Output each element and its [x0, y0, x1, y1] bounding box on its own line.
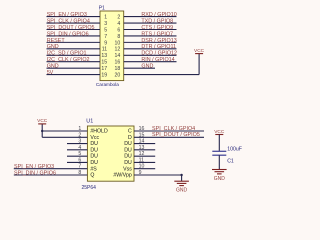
svg-text:DCD / GPIO12: DCD / GPIO12: [141, 51, 177, 57]
svg-text:SPI_DIN / GPIO6: SPI_DIN / GPIO6: [14, 170, 56, 176]
svg-text:I2C_CLK / GPIO2: I2C_CLK / GPIO2: [47, 57, 90, 63]
svg-text:5V: 5V: [47, 70, 54, 76]
svg-text:3: 3: [104, 21, 107, 27]
svg-text:Q: Q: [90, 173, 94, 179]
svg-text:SPI_CLK / GPIO4: SPI_CLK / GPIO4: [152, 126, 195, 132]
svg-text:7: 7: [104, 34, 107, 40]
svg-text:CTS / GPIO9: CTS / GPIO9: [141, 25, 173, 31]
svg-text:16: 16: [115, 60, 121, 66]
svg-text:DU: DU: [124, 154, 132, 160]
svg-text:13: 13: [101, 53, 107, 59]
svg-text:DTR / GPIO11: DTR / GPIO11: [141, 44, 176, 50]
svg-text:SPI_DOUT / GPIO5: SPI_DOUT / GPIO5: [152, 132, 200, 138]
svg-text:GND: GND: [47, 64, 59, 70]
svg-text:19: 19: [101, 72, 107, 78]
svg-text:DU: DU: [124, 147, 132, 153]
svg-text:VCC: VCC: [214, 129, 225, 135]
svg-text:U1: U1: [86, 119, 93, 125]
svg-text:SPI_CLK / GPIO4: SPI_CLK / GPIO4: [47, 18, 90, 24]
svg-text:#HOLD: #HOLD: [90, 129, 108, 135]
svg-text:SPI_EN / GPIO3: SPI_EN / GPIO3: [14, 164, 54, 170]
svg-text:10: 10: [115, 40, 121, 46]
svg-text:20: 20: [115, 72, 121, 78]
svg-text:C: C: [128, 129, 132, 135]
svg-text:RXD / GPIO10: RXD / GPIO10: [141, 12, 176, 18]
svg-text:9: 9: [104, 40, 107, 46]
svg-text:100uF: 100uF: [227, 147, 242, 153]
svg-text:25P64: 25P64: [82, 185, 97, 191]
svg-text:Carambola: Carambola: [96, 82, 119, 87]
svg-text:DU: DU: [90, 147, 98, 153]
svg-text:RTS / GPIO7: RTS / GPIO7: [141, 31, 173, 37]
svg-text:DU: DU: [90, 141, 98, 147]
svg-text:VCC: VCC: [194, 48, 205, 54]
svg-text:4: 4: [117, 21, 120, 27]
svg-text:GND: GND: [141, 64, 153, 70]
svg-text:8: 8: [117, 34, 120, 40]
svg-text:C1: C1: [227, 158, 234, 164]
svg-text:DU: DU: [90, 154, 98, 160]
svg-text:DU: DU: [124, 160, 132, 166]
svg-text:RESET: RESET: [47, 38, 66, 44]
svg-text:11: 11: [102, 47, 107, 53]
svg-text:GND: GND: [47, 44, 59, 50]
svg-text:DSR / GPIO13: DSR / GPIO13: [141, 38, 176, 44]
svg-text:Vss: Vss: [123, 166, 132, 172]
svg-text:#W/Vpp: #W/Vpp: [113, 173, 132, 179]
svg-text:18: 18: [115, 66, 121, 72]
svg-text:#S: #S: [90, 166, 97, 172]
svg-text:1: 1: [104, 15, 107, 21]
svg-text:DU: DU: [124, 141, 132, 147]
svg-text:15: 15: [101, 60, 107, 66]
svg-text:P1: P1: [99, 6, 105, 12]
svg-text:12: 12: [115, 47, 121, 53]
svg-text:GND: GND: [214, 176, 226, 182]
svg-text:2: 2: [117, 15, 120, 21]
svg-text:17: 17: [101, 66, 107, 72]
svg-text:DU: DU: [90, 160, 98, 166]
svg-text:5: 5: [104, 27, 107, 33]
svg-text:14: 14: [115, 53, 121, 59]
svg-text:GND: GND: [176, 188, 188, 194]
svg-text:RIN / GPIO14: RIN / GPIO14: [141, 57, 174, 63]
svg-text:SPI_DOUT / GPIO5: SPI_DOUT / GPIO5: [47, 25, 95, 31]
svg-text:SPI_DIN / GPIO6: SPI_DIN / GPIO6: [47, 31, 89, 37]
svg-text:VCC: VCC: [37, 118, 48, 124]
svg-text:TXD / GPIO8: TXD / GPIO8: [141, 18, 173, 24]
svg-text:I2C_SD / GPIO1: I2C_SD / GPIO1: [47, 51, 87, 57]
svg-text:SPI_EN / GPIO3: SPI_EN / GPIO3: [47, 12, 87, 18]
svg-text:D: D: [128, 135, 132, 141]
svg-text:Vcc: Vcc: [90, 135, 99, 141]
svg-text:6: 6: [117, 27, 120, 33]
